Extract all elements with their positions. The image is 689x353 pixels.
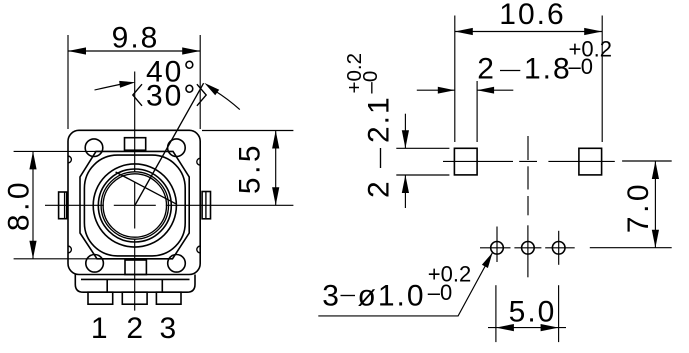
svg-text:2.1: 2.1 — [363, 95, 396, 143]
svg-text:8.0: 8.0 — [3, 179, 36, 231]
svg-text:5.5: 5.5 — [234, 142, 267, 194]
svg-text:7.0: 7.0 — [622, 181, 655, 233]
svg-text:9.8: 9.8 — [112, 22, 160, 55]
svg-text:1.8: 1.8 — [524, 53, 572, 86]
svg-text:1: 1 — [91, 312, 110, 345]
svg-text:2: 2 — [477, 53, 496, 86]
svg-text:3: 3 — [322, 280, 341, 313]
svg-text:2: 2 — [363, 179, 396, 198]
svg-text:–0: –0 — [359, 71, 382, 94]
svg-text:2: 2 — [126, 312, 145, 345]
svg-text:ø1.0: ø1.0 — [358, 280, 426, 313]
svg-text:–0: –0 — [569, 54, 593, 79]
svg-text:–0: –0 — [428, 280, 452, 305]
svg-text:3: 3 — [159, 312, 178, 345]
svg-text:5.0: 5.0 — [509, 295, 557, 328]
svg-text:30°: 30° — [146, 80, 197, 113]
svg-text:10.6: 10.6 — [499, 0, 565, 31]
